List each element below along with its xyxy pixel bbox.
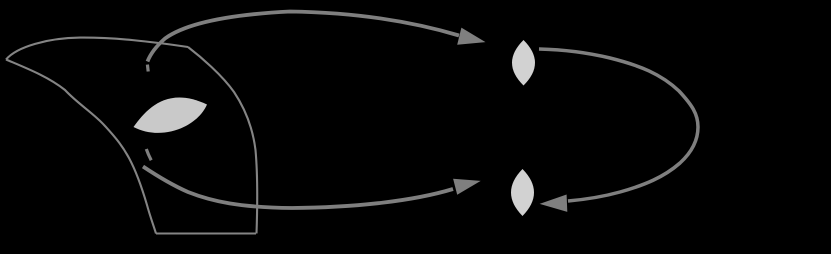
loop return curve (right) [539,49,698,201]
horn body outline (large funnel shape, left) [6,38,257,234]
loop arrowhead [540,195,568,212]
dash above lens [146,65,150,72]
lower small lens L3 [511,169,534,216]
bottom arrow curve (horn to lower small lens) [143,167,453,209]
horn bottom edge [156,232,256,234]
upper small lens L2 [512,40,535,86]
horn top edge [6,38,188,60]
dash below lens [146,149,151,160]
bottom arrowhead [453,179,481,195]
horn left edge [6,60,156,234]
horn right edge [188,47,257,234]
top arrowhead [457,28,485,45]
big lens L1 (tilted leaf inside horn) [134,98,208,133]
top arrow curve (horn to upper small lens) [148,12,460,62]
